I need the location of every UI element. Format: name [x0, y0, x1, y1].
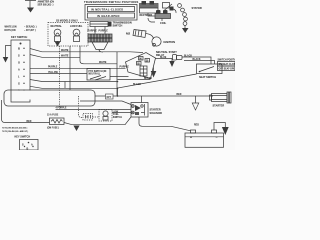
- svg-text:STATOR: STATOR: [192, 6, 202, 10]
- svg-text:DOTS (ON: DOTS (ON: [5, 30, 16, 32]
- svg-text:PURPLE: PURPLE: [120, 67, 130, 69]
- svg-text:SOLENOID: SOLENOID: [150, 112, 163, 115]
- svg-text:COIL: COIL: [160, 21, 167, 25]
- svg-text:YELLOW: YELLOW: [48, 72, 59, 74]
- svg-text:B: B: [27, 148, 29, 151]
- svg-text:BLACK: BLACK: [193, 58, 201, 61]
- svg-text:OPT: OPT: [107, 97, 112, 99]
- svg-text:WHITE: WHITE: [99, 62, 107, 64]
- svg-text:SWITCH: SWITCH: [113, 117, 122, 119]
- svg-text:NEUTRAL): NEUTRAL): [89, 72, 101, 75]
- svg-text:WHITE: WHITE: [61, 50, 69, 52]
- svg-text:FUEL: FUEL: [113, 114, 120, 116]
- svg-text:M2: M2: [126, 32, 130, 36]
- svg-text:BLACK: BLACK: [184, 54, 192, 57]
- svg-text:OFF SEAT-OPEN: OFF SEAT-OPEN: [219, 68, 236, 71]
- svg-text:−: −: [216, 135, 218, 139]
- svg-text:(ON FUSE ): (ON FUSE ): [47, 128, 59, 130]
- svg-text:SER 595,301- ): SER 595,301- ): [38, 5, 54, 7]
- svg-text:IN NEUTRAL-CLOSED: IN NEUTRAL-CLOSED: [91, 8, 123, 12]
- svg-text:ON SEAT-CLOSED: ON SEAT-CLOSED: [219, 63, 236, 66]
- svg-text:15 A FUSE: 15 A FUSE: [47, 114, 59, 117]
- svg-text:– SER,NO. ): – SER,NO. ): [24, 27, 37, 29]
- svg-text:WHITE (ON: WHITE (ON: [5, 27, 17, 29]
- svg-text:IN GEAR-OPEN: IN GEAR-OPEN: [97, 14, 120, 18]
- svg-text:PURPLE: PURPLE: [88, 31, 98, 33]
- svg-text:PURPLE: PURPLE: [48, 67, 58, 69]
- svg-text:70/75 (ON 400,601-450,000 ): 70/75 (ON 400,601-450,000 ): [2, 126, 28, 129]
- svg-text:NEUTRAL: NEUTRAL: [51, 25, 63, 28]
- svg-text:LOW FUEL: LOW FUEL: [70, 25, 83, 28]
- svg-text:G: G: [18, 82, 20, 85]
- svg-text:BLACK: BLACK: [133, 83, 141, 86]
- svg-text:4 PURPLE: 4 PURPLE: [56, 106, 68, 109]
- svg-text:RED: RED: [27, 121, 32, 123]
- svg-text:KEY SWITCH: KEY SWITCH: [11, 35, 27, 39]
- svg-text:RED: RED: [194, 125, 199, 127]
- svg-text:PURPLE: PURPLE: [99, 31, 109, 33]
- svg-text:– 40?,30? ): – 40?,30? ): [24, 29, 36, 32]
- svg-text:AMMETER (ON: AMMETER (ON: [38, 1, 55, 4]
- svg-text:RECTIFIER: RECTIFIER: [140, 14, 153, 17]
- svg-text:BLUE: BLUE: [160, 57, 167, 59]
- svg-text:A: A: [18, 68, 20, 71]
- svg-text:70/75 (ON 450,001- AND UP ): 70/75 (ON 450,001- AND UP ): [2, 130, 29, 133]
- svg-text:O: O: [18, 61, 20, 64]
- svg-text:S3 MODELS ONLY: S3 MODELS ONLY: [56, 20, 78, 23]
- svg-text:SEAT SWITCH: SEAT SWITCH: [199, 76, 216, 79]
- svg-text:BLACK: BLACK: [144, 77, 152, 80]
- svg-text:KEY SWITCH: KEY SWITCH: [15, 136, 31, 139]
- svg-text:IGNITION: IGNITION: [164, 40, 176, 44]
- svg-text:+: +: [190, 136, 192, 140]
- svg-text:TRANSMISSION SWITCH POSITIONS: TRANSMISSION SWITCH POSITIONS: [84, 0, 139, 4]
- svg-text:SWITCH: SWITCH: [113, 25, 123, 28]
- svg-text:STARTER: STARTER: [213, 104, 225, 107]
- svg-text:RED: RED: [177, 94, 182, 96]
- svg-text:WHITE: WHITE: [61, 56, 69, 58]
- svg-text:B: B: [18, 46, 20, 50]
